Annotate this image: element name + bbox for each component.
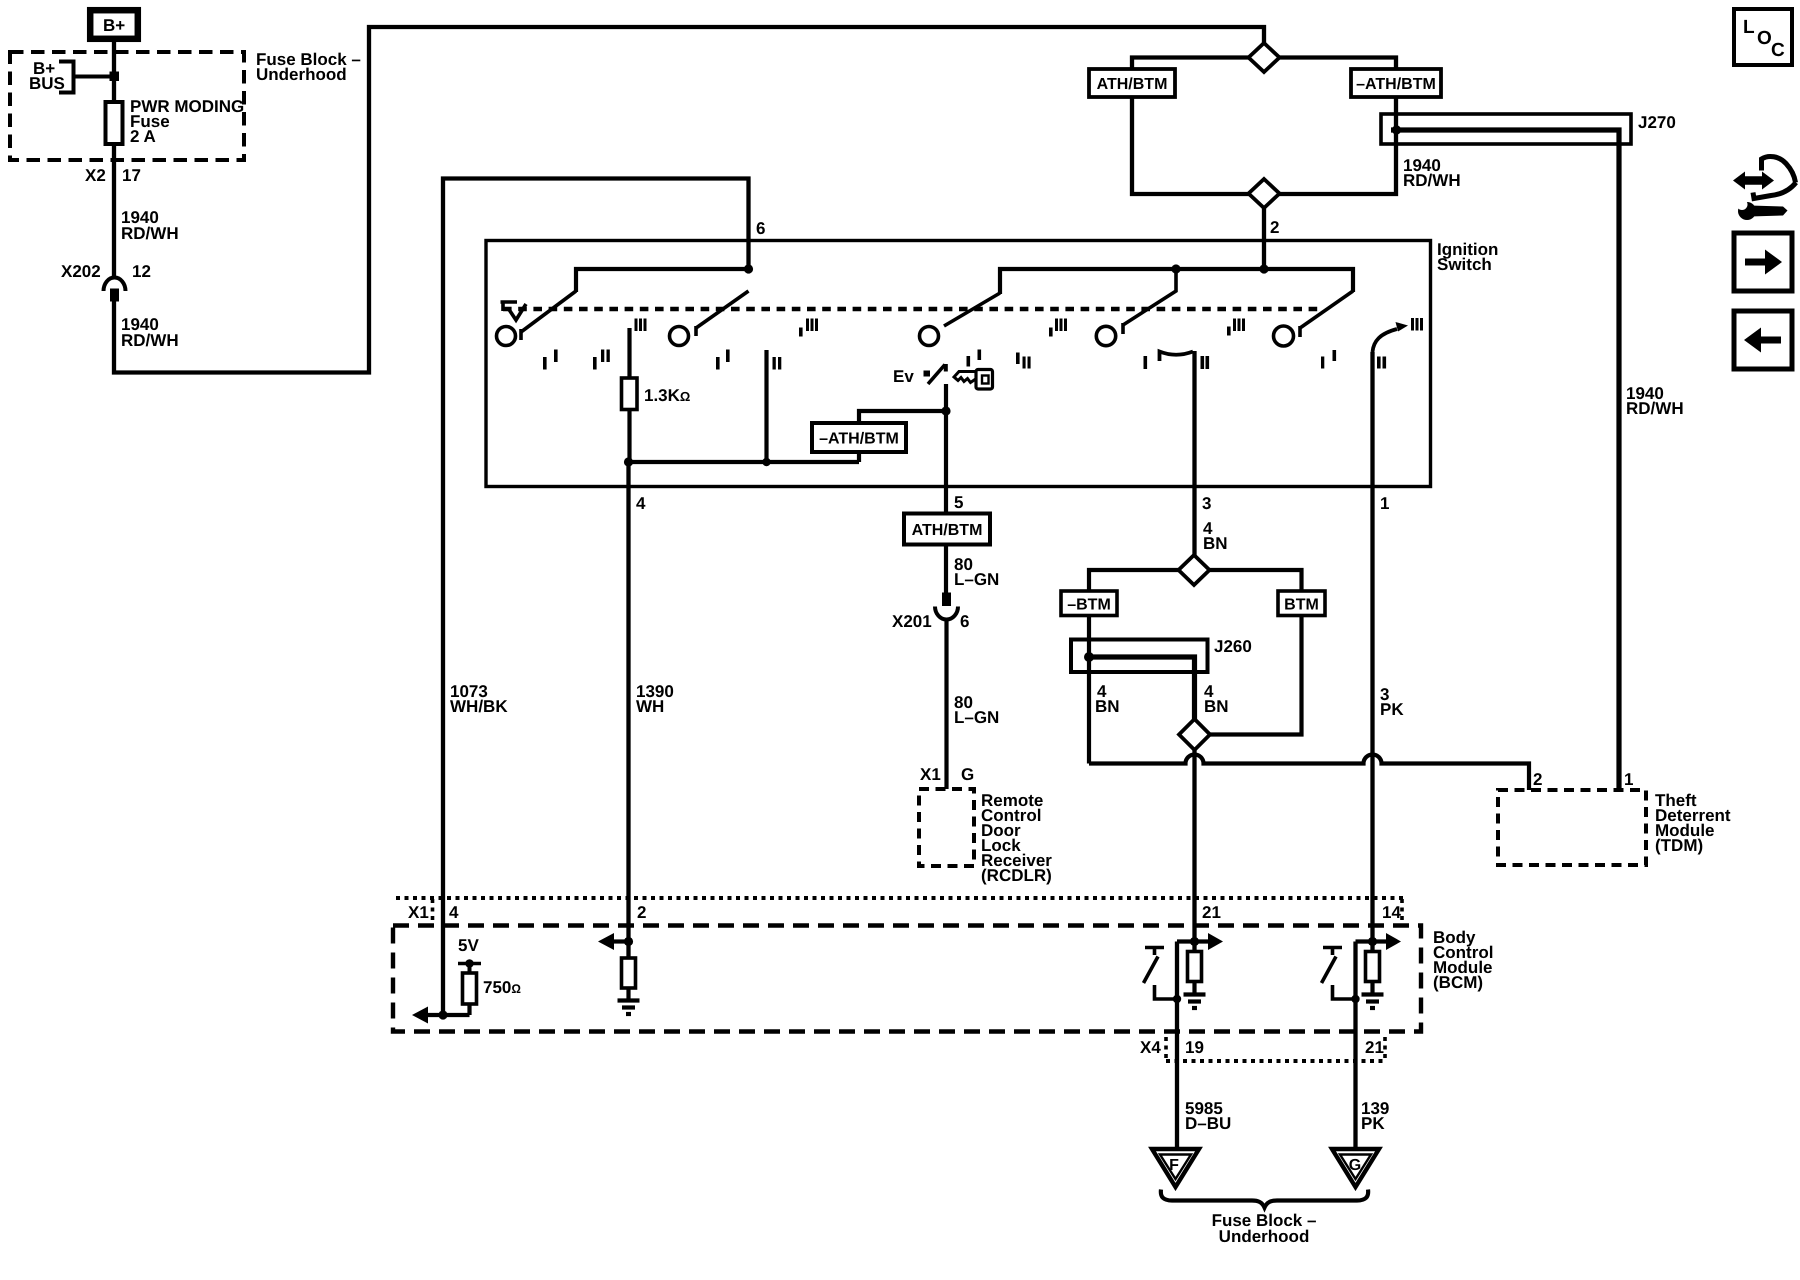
wire ATH/BTM down to splice S2 [1132, 97, 1249, 194]
pole 6 position II mark [1377, 357, 1381, 369]
junction dot pole4 feed [1171, 264, 1180, 273]
junction dot on J260 bus [1084, 652, 1094, 662]
pole 1 position III mark [635, 319, 638, 332]
ignition switch box [486, 241, 1431, 487]
splice diamond S1 [1249, 43, 1280, 72]
key switch lower blade [928, 365, 945, 385]
wire ignition pin 4 to BCM pin 2 (circuit 1390 WH) [626, 462, 630, 898]
wire pole1 position III to resistor [627, 328, 631, 378]
pole 6 arc arrow to position III [1373, 329, 1398, 352]
svg-text:Ev: Ev [893, 367, 914, 386]
wire BCM pin21 branch to X4 pin 19 [1175, 942, 1179, 1150]
wire X201 to RCDLR pin G [944, 620, 948, 790]
ground (pin 21) [1184, 992, 1206, 996]
svg-text:(TDM): (TDM) [1655, 836, 1703, 855]
svg-text:21: 21 [1202, 903, 1221, 922]
pole 2 position III mark [799, 328, 803, 337]
BCM pin 2 input: wire to resistor [626, 898, 630, 958]
wire B+ terminal down through fuse to X2 and X202 [112, 42, 116, 277]
wire X202 to top feed line into splice S1 [114, 27, 1264, 373]
net label box -ATH/BTM (inside switch) [812, 423, 906, 452]
switch feed bus segment A (pole1 bar) [576, 269, 749, 292]
pole 3 wiper blade (key switch) [944, 293, 1000, 326]
svg-text:J260: J260 [1214, 637, 1252, 656]
junction block J260 [1071, 640, 1208, 673]
svg-text:2: 2 [637, 903, 646, 922]
key icon [954, 372, 976, 383]
svg-text:WH/BK: WH/BK [450, 697, 508, 716]
svg-text:RD/WH: RD/WH [1626, 399, 1684, 418]
connector X4 dotted line [1166, 1059, 1385, 1063]
wire BTM down to splice S4 [1210, 616, 1302, 735]
pole 6 position III mark [1411, 318, 1414, 331]
connector X1 dotted line [396, 896, 1403, 900]
svg-text:X202: X202 [61, 262, 101, 281]
svg-text:12: 12 [132, 262, 151, 281]
svg-text:–ATH/BTM: –ATH/BTM [1356, 76, 1436, 93]
resistor 1.3 Kohm [622, 378, 638, 410]
wire bottom junction up to -ATH/BTM tap on pin 5 wire [859, 411, 946, 462]
svg-text:BUS: BUS [29, 74, 65, 93]
svg-text:1: 1 [1380, 494, 1389, 513]
svg-text:X4: X4 [1140, 1038, 1161, 1057]
wire S3 to BTM [1209, 570, 1302, 591]
svg-text:L–GN: L–GN [954, 570, 999, 589]
svg-text:ATH/BTM: ATH/BTM [912, 522, 983, 539]
svg-text:ATH/BTM: ATH/BTM [1097, 76, 1168, 93]
pole 5 wiper blade [1300, 291, 1353, 328]
svg-text:1: 1 [1624, 770, 1633, 789]
wire splice S1 to ATH/BTM box [1132, 58, 1249, 70]
wire ignition pin 1 to BCM pin 14 (circuit 3 PK) [1370, 352, 1374, 952]
svg-text:Switch: Switch [1437, 255, 1492, 274]
svg-text:PK: PK [1361, 1114, 1385, 1133]
pole 2 position II contact wire [764, 350, 768, 462]
switch internal bottom wire [629, 460, 860, 464]
svg-text:2: 2 [1270, 218, 1279, 237]
svg-text:–ATH/BTM: –ATH/BTM [819, 431, 899, 448]
junction dot pin2 feed [1259, 264, 1268, 273]
svg-text:(RCDLR): (RCDLR) [981, 866, 1052, 885]
pole 1 contact circle [497, 327, 516, 346]
pole 3 position II mark [1016, 353, 1020, 365]
splice diamond S4 [1179, 719, 1210, 750]
svg-text:G: G [961, 765, 974, 784]
wire S3 to -BTM [1089, 570, 1179, 591]
svg-text:19: 19 [1185, 1038, 1204, 1057]
net label box ATH/BTM (pin 5) [904, 514, 990, 545]
J270 internal bus bar to TDM pin 1 [1391, 130, 1619, 790]
pole 2 position I mark [716, 357, 720, 370]
junction dot bottom left [624, 457, 633, 466]
ground (pin 14) [1362, 992, 1384, 996]
svg-text:Underhood: Underhood [1219, 1227, 1310, 1246]
svg-text:BN: BN [1203, 534, 1228, 553]
junction square on B+ wire [110, 72, 120, 82]
nav arrow right box [1734, 233, 1792, 291]
pole 2 position II mark [773, 357, 776, 370]
pole 4 position II mark [1201, 356, 1205, 369]
BCM pin 21 arrow into module [1177, 939, 1209, 943]
svg-text:G: G [1349, 1157, 1361, 1174]
svg-text:X1: X1 [408, 903, 429, 922]
battery terminal B+ box [90, 10, 138, 39]
svg-text:(BCM): (BCM) [1433, 973, 1483, 992]
svg-text:X201: X201 [892, 612, 932, 631]
RCDLR module dashed box [919, 789, 974, 866]
svg-text:B+: B+ [103, 16, 125, 35]
internal switch (pin 21) [1145, 946, 1164, 950]
net label box -BTM [1061, 591, 1117, 616]
theft deterrent module dashed box [1498, 790, 1646, 865]
pole 4 contact arc to pin 3 wire [1160, 352, 1194, 362]
pole 2 wiper blade [696, 291, 749, 328]
wire -ATH/BTM down through J270 to splice S2 [1279, 97, 1396, 194]
svg-text:O: O [1757, 28, 1772, 49]
pole 5 position I mark [1321, 357, 1324, 369]
wire pin 5 to X201 [944, 545, 948, 594]
wire ignition pin 3 to splice S3 [1192, 351, 1196, 556]
compare/diagnose icon: double arrow [1733, 172, 1774, 190]
node B+ BUS bracket terminal [59, 62, 74, 93]
svg-text:C: C [1771, 40, 1785, 61]
wire splice S1 to -ATH/BTM box [1279, 58, 1396, 70]
body control module dashed box [393, 926, 1421, 1032]
svg-text:5: 5 [954, 493, 963, 512]
svg-text:14: 14 [1382, 903, 1401, 922]
pole 3 position III mark [1049, 328, 1053, 337]
fuse block terminal triangle G [1332, 1149, 1379, 1187]
pole 1 wiper blade [521, 291, 576, 332]
junction dot on J270 bus [1392, 125, 1401, 134]
pole 4 wiper blade [1123, 269, 1176, 325]
svg-text:BTM: BTM [1284, 597, 1319, 614]
svg-text:X2: X2 [85, 166, 106, 185]
BCM pin 14 arrow into module [1356, 939, 1388, 943]
ground (pin 2) [618, 998, 640, 1002]
inline connector X202 pin 12 [104, 278, 126, 292]
pole 4 position III mark [1227, 327, 1231, 336]
svg-text:21: 21 [1365, 1038, 1384, 1057]
svg-text:X1: X1 [920, 765, 941, 784]
pole 1 position II mark [593, 357, 597, 370]
pole 3 contact circle [920, 327, 939, 346]
internal switch (pin 14) [1323, 946, 1342, 950]
BCM pin 2 arrow into module [613, 939, 629, 943]
brace under triangles [1161, 1190, 1368, 1208]
svg-text:F: F [1169, 1157, 1179, 1174]
BCM pin 4 input: wire to junction [441, 898, 445, 1015]
svg-text:BN: BN [1095, 697, 1120, 716]
wire BCM pin14 branch to X4 pin 21 [1353, 942, 1357, 1150]
svg-text:5V: 5V [458, 936, 479, 955]
BCM pin 14 input junction [1368, 937, 1377, 946]
TDM feed wire with hops [1089, 755, 1529, 791]
X1 dotted end ticks [431, 899, 435, 924]
fuse block underhood dashed box [10, 52, 244, 160]
BCM pin 21 input junction [1190, 937, 1199, 946]
svg-text:BN: BN [1204, 697, 1229, 716]
pole 4 position I mark [1144, 356, 1148, 369]
splice diamond S2 [1249, 179, 1280, 208]
wire ignition pin 6 up and over to BCM pin 4 (circuit 1073 WH/BK) [443, 179, 749, 899]
wire resistor to bottom junction [627, 410, 631, 463]
fuse block terminal triangle F [1152, 1149, 1199, 1187]
junction dot pin5 tap [941, 406, 950, 415]
svg-text:17: 17 [122, 166, 141, 185]
resistor (pin 14 pulldown) [1366, 952, 1380, 982]
svg-text:Underhood: Underhood [256, 65, 347, 84]
pole 4 contact circle [1096, 326, 1115, 345]
wire B+ BUS to main wire [74, 75, 113, 79]
resistor 750 ohm [463, 973, 477, 1004]
junction dot pin6 feed [744, 264, 753, 273]
junction block J270 [1381, 114, 1631, 144]
svg-text:WH: WH [636, 697, 664, 716]
svg-text:L: L [1743, 17, 1755, 38]
svg-text:L–GN: L–GN [954, 708, 999, 727]
wire -BTM down to TDM feed wire [1087, 616, 1091, 764]
svg-text:6: 6 [960, 612, 969, 631]
svg-text:–BTM: –BTM [1067, 597, 1111, 614]
wire key contact to pin 5 [944, 384, 948, 514]
svg-text:RD/WH: RD/WH [121, 224, 179, 243]
svg-text:RD/WH: RD/WH [121, 331, 179, 350]
resistor (pin 2 pulldown) [622, 958, 636, 988]
wire splice S2 to ignition switch pin 2 [1262, 208, 1266, 269]
pole 1 position I mark [543, 357, 547, 370]
pole 3 position I mark [967, 356, 971, 367]
net label box BTM [1278, 591, 1325, 616]
switch feed bus segment B [1000, 269, 1353, 294]
compare/diagnose icon: wrench [1738, 202, 1756, 220]
pole 2 contact circle [670, 327, 689, 346]
net label box ATH/BTM [1089, 69, 1175, 97]
svg-text:1.3KΩ: 1.3KΩ [644, 386, 690, 405]
svg-text:RD/WH: RD/WH [1403, 171, 1461, 190]
splice diamond S3 [1179, 555, 1210, 585]
J260 internal bus bar [1089, 657, 1195, 719]
svg-text:4: 4 [449, 903, 459, 922]
svg-text:PK: PK [1380, 700, 1404, 719]
svg-text:D–BU: D–BU [1185, 1114, 1231, 1133]
BCM pin 4 arrow into module [427, 1013, 470, 1017]
inline connector X201 pin 6 [942, 593, 951, 607]
svg-text:2 A: 2 A [130, 127, 156, 146]
svg-text:4: 4 [636, 494, 646, 513]
resistor (pin 21 pulldown) [1188, 952, 1202, 982]
pole 1 accessory position mark [501, 302, 518, 311]
switch detent dashed line [503, 307, 1318, 312]
fuse PWR MODING 2A [106, 102, 123, 144]
net label box -ATH/BTM [1351, 69, 1441, 97]
svg-text:J270: J270 [1638, 113, 1676, 132]
pole 5 contact circle [1274, 326, 1294, 346]
svg-text:2: 2 [1533, 770, 1542, 789]
nav arrow left box [1734, 311, 1792, 369]
svg-text:6: 6 [756, 219, 765, 238]
svg-text:3: 3 [1202, 494, 1211, 513]
LOC reference icon box [1734, 9, 1792, 65]
wire S4 down to BCM pin 21 [1192, 750, 1196, 952]
compare/diagnose icon: outline arrow [1762, 156, 1796, 182]
junction dot pole2 II [762, 458, 770, 466]
